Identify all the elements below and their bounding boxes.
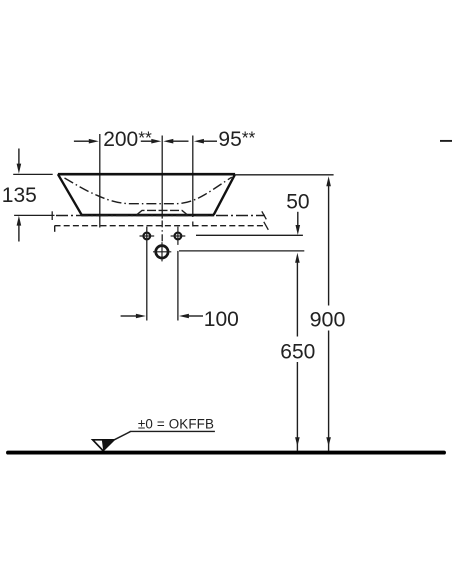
dimension line 200 left arrow: [74, 139, 99, 144]
basin left slope: [58, 174, 82, 215]
floor line: [8, 451, 444, 455]
dimension 50 top arrow (down): [296, 212, 301, 235]
dimension 650 lower line and floor arrow: [295, 362, 300, 451]
datum leader diagonal: [114, 432, 130, 440]
drain hole: [153, 242, 171, 261]
break tick at centerline end: [262, 211, 267, 219]
countertop left corner dash: [54, 226, 56, 232]
dimension line 95 left arrow (points right at centerline): [141, 139, 162, 144]
svg-text:±0 = OKFFB: ±0 = OKFFB: [138, 417, 214, 432]
extension line from corner down to 100 dim: [177, 251, 179, 321]
dimension 100 left arrow: [121, 314, 146, 319]
extension line faucet height y=235.3: [196, 234, 303, 236]
svg-text:650: 650: [280, 340, 315, 363]
extension line basin top to 900 dim: [236, 174, 334, 176]
vertical centerline below basin x=162: [161, 221, 163, 242]
basin inner bowl hidden curve: [65, 177, 232, 204]
drain recess bump: [137, 210, 187, 214]
dimension 900 lower line and floor arrow: [326, 331, 331, 451]
svg-text:200**: 200**: [103, 127, 152, 151]
tick at end of lower extension line: [51, 211, 53, 220]
basin bottom edge: [81, 214, 214, 217]
datum triangle: [93, 440, 114, 451]
break tick at countertop line end: [264, 222, 269, 230]
dimension 135 bottom arrow (up): [17, 216, 22, 242]
dimension line 200 right arrow (points left at centerline): [163, 139, 188, 144]
dashed lower part of extension line x=192.8: [192, 222, 194, 227]
stray dimension segment at right edge: [440, 140, 452, 142]
dimension line 95 right arrow: [194, 139, 217, 144]
basin top edge: [58, 173, 235, 176]
basin right slope: [214, 174, 235, 215]
extension line 135 lower: [14, 214, 54, 216]
svg-text:100: 100: [204, 308, 239, 331]
horizontal centerline through basin bottom: [56, 215, 265, 217]
extension line at x=99.8: [99, 134, 101, 228]
extension line 135 upper: [13, 173, 53, 175]
extension line centerline top x=162.2: [161, 136, 163, 219]
faucet hole right: [171, 227, 186, 245]
dimension 650 upper arrow (up at drain height line): [295, 253, 300, 337]
svg-text:135: 135: [2, 184, 37, 207]
extension line at x=192.8: [192, 136, 194, 218]
svg-text:95**: 95**: [218, 127, 255, 151]
svg-text:900: 900: [310, 308, 346, 332]
dimension 100 right arrow: [179, 314, 203, 319]
extension line drain height y=250.9: [179, 250, 304, 252]
svg-text:50: 50: [286, 191, 309, 214]
dimension 135 top arrow (down): [17, 149, 22, 174]
dimension 900 upper arrow (up at basin top line): [326, 176, 331, 305]
countertop hidden line: [55, 225, 267, 227]
extension line from left hole down to 100 dim: [146, 227, 148, 321]
faucet hole left: [140, 233, 155, 240]
underline of datum label: [130, 430, 215, 432]
